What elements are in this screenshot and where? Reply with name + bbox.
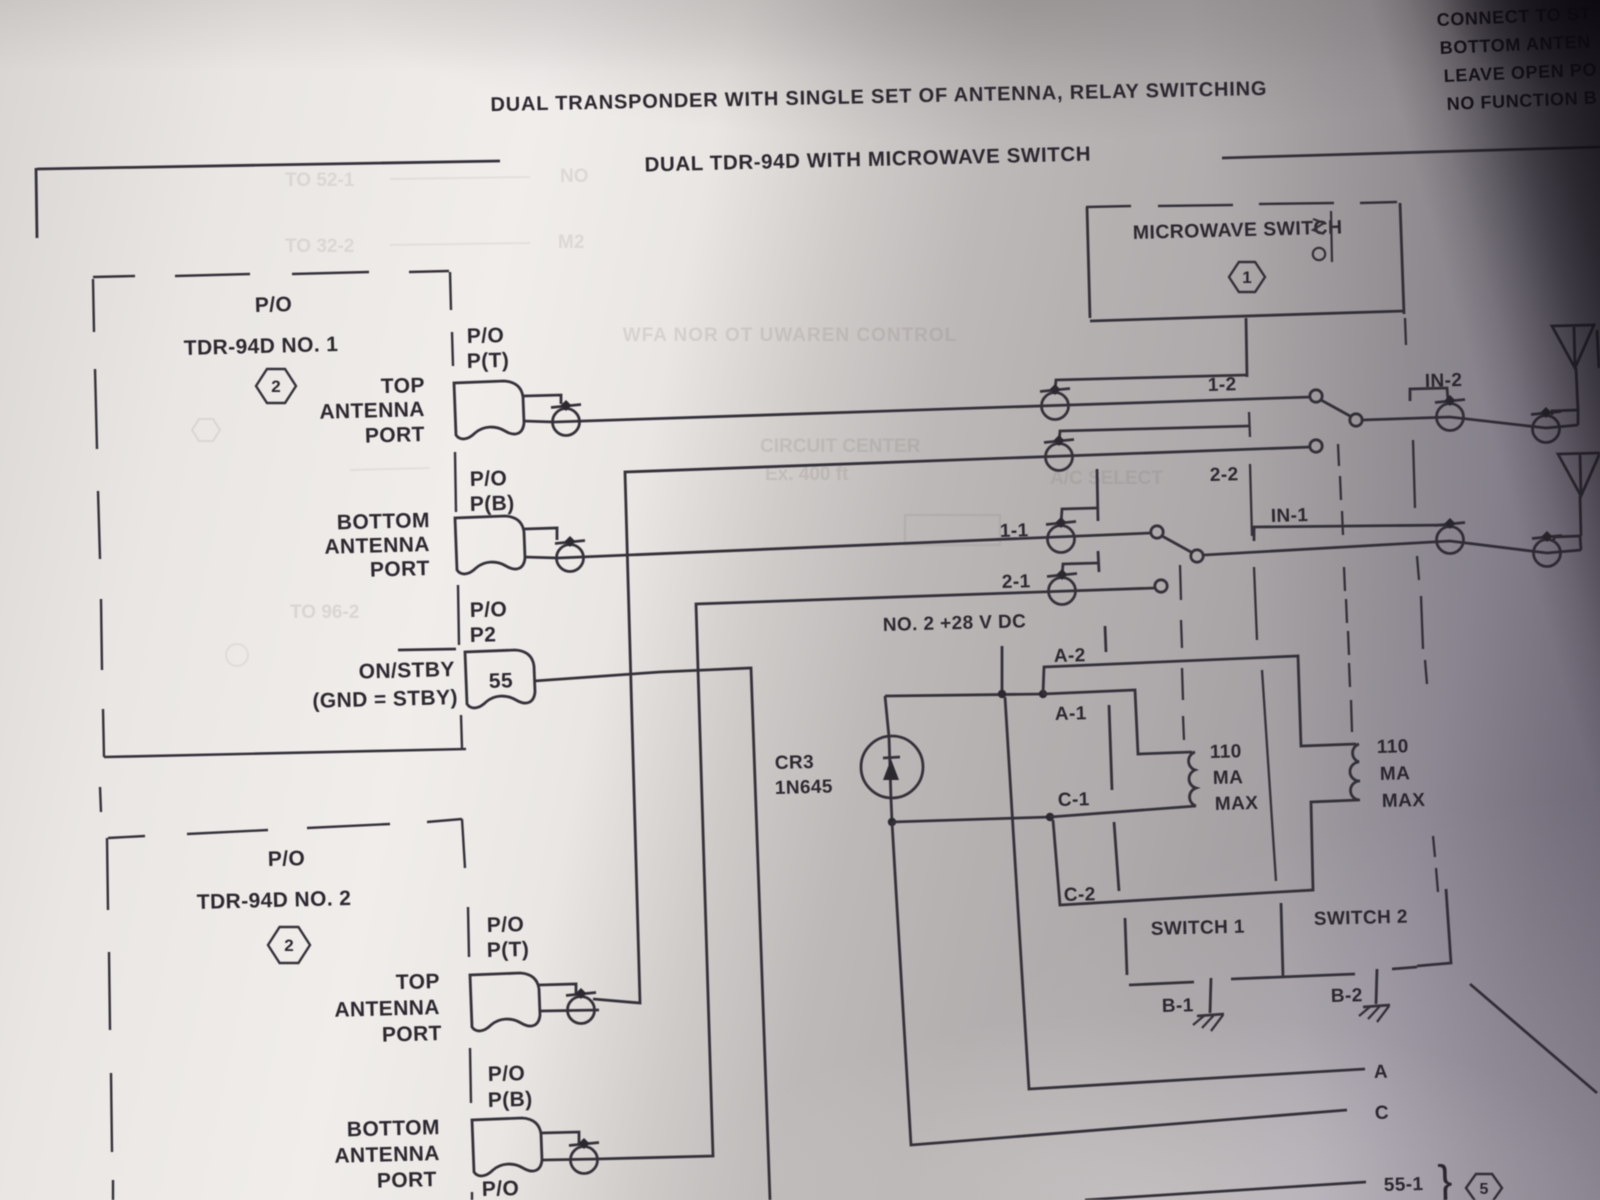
wire bottom antenna no.1 to relay [558,533,1151,558]
label BOTTOM [337,509,431,534]
label MA (coil2) [1380,763,1411,785]
svg-text:SWITCH 2: SWITCH 2 [1314,907,1409,930]
note line 4 [1446,87,1598,114]
svg-text:BOTTOM: BOTTOM [347,1116,441,1141]
wire top antenna no.2 riser [593,447,1311,1003]
svg-text:B-1: B-1 [1162,995,1194,1017]
ghost hexagon 2 [192,419,220,441]
dashed box TDR-94D NO.2 left edge [107,838,113,1200]
label 1-1 [1000,520,1029,542]
wire flag3 shield stub [539,984,576,994]
label 55 [489,669,514,693]
svg-text:P2: P2 [470,623,497,647]
wire terminal IN-2 bracket [1410,388,1448,401]
wire antenna1 mast [1576,368,1578,410]
wire C output [892,822,1347,1145]
bracket between switch labels [1281,903,1283,977]
svg-text:ANTENNA: ANTENNA [319,398,425,424]
svg-text:P/O: P/O [487,913,525,937]
svg-text:TDR-94D NO. 1: TDR-94D NO. 1 [184,333,339,360]
diagonal corner line [1470,984,1597,1093]
svg-text:C-1: C-1 [1058,789,1090,811]
wire flag4 center stub [543,1159,597,1160]
wire switch2 bottom border right [1392,967,1417,969]
svg-text:P/O: P/O [470,598,508,622]
svg-text:P/O: P/O [268,847,306,871]
connector antenna bottom feed [1532,531,1562,567]
label GND=STBY [312,686,458,713]
label B-1 [1162,995,1194,1017]
svg-text:5: 5 [1480,1181,1489,1198]
wire +28V bus [885,694,1043,696]
stub terminal B-1 [1210,978,1211,1013]
svg-text:A: A [1374,1062,1389,1083]
label P/O P(T) no.1 a [467,324,505,348]
dash between boxes [100,787,101,812]
label TOP [381,374,426,398]
svg-text:ANTENNA: ANTENNA [334,996,440,1022]
dashed boundary switch2 right [1405,318,1438,892]
connector flag P(T) no.2 [470,973,540,1031]
title text [490,78,1267,116]
wire flag3 center stub [541,1010,599,1011]
wire flag2 shield stub [524,528,557,540]
svg-text:2: 2 [284,936,293,955]
stub terminal 2-1 [1098,551,1099,572]
label C [1375,1103,1390,1124]
ghost circle 6 [226,644,248,666]
stub terminal C-2 [1114,822,1119,891]
label PORT 2 [370,557,431,582]
label TOP no.2 [396,970,441,994]
wire top-left bracket horizontal [37,161,500,169]
svg-text:PORT: PORT [382,1022,443,1047]
label MICROWAVE SWITCH [1133,217,1343,244]
svg-text:TO 32-2: TO 32-2 [285,236,354,257]
connector 2-2 [1044,435,1074,471]
label TDR-94D NO. 1 [184,333,339,360]
label P/O (cut) [482,1177,520,1200]
svg-text:55-1: 55-1 [1384,1174,1424,1196]
svg-text:1-2: 1-2 [1208,374,1237,396]
svg-text:(GND = STBY): (GND = STBY) [312,686,458,713]
wire flag4 shield stub [541,1132,579,1144]
coil L2 (110 MA MAX) [1350,744,1360,800]
wire diode anode drop [891,799,892,822]
label PORT [365,423,426,448]
connector antenna top feed [1531,407,1561,443]
svg-text:55: 55 [489,669,514,693]
svg-text:DUAL TDR-94D WITH MICROWAVE SW: DUAL TDR-94D WITH MICROWAVE SWITCH [644,143,1091,177]
label MAX (coil2) [1382,790,1426,812]
stub terminal A-2 [1105,626,1106,652]
ghost leader lines [350,177,530,470]
wire flag2 center stub [524,557,558,558]
label P/O P(T) no.1 b [467,349,510,373]
connector J3 top antenna no.2 [566,988,596,1024]
label 55-1 [1384,1174,1424,1196]
wire flag1 center stub [523,421,554,422]
label 110 (coil1) [1210,741,1242,763]
wire to diode cathode [885,696,889,737]
svg-text:ANTENNA: ANTENNA [334,1142,440,1168]
wire terminal IN-1 [1254,525,1451,541]
connector J2 bottom antenna no.1 [555,536,585,572]
svg-text:C: C [1375,1103,1390,1124]
wire flag1 shield stub [523,395,561,404]
svg-text:WFA NOR OT UWAREN CONTROL: WFA NOR OT UWAREN CONTROL [623,325,958,346]
wire terminal 1-2 [1055,375,1247,390]
svg-text:A/C SELECT: A/C SELECT [1050,468,1163,489]
label IN-1 [1271,505,1309,527]
dashed box microwave switch top edge [1086,202,1397,207]
wire terminal 2-2 [1059,426,1249,443]
svg-text:P(T): P(T) [487,938,530,962]
coil L1 (110 MA MAX) [1189,752,1196,806]
note line 2 [1439,31,1591,58]
switch blade S1 [1162,536,1191,552]
label A [1374,1062,1389,1083]
junction +28V [998,690,1006,698]
wire top-left bracket vertical [36,168,37,238]
label MA (coil1) [1213,767,1244,789]
svg-text:BOTTOM: BOTTOM [337,509,431,534]
svg-text:P/O: P/O [488,1062,526,1086]
junction C-1 [1046,813,1054,821]
contact circle 2-1 [1155,580,1167,592]
svg-text:1: 1 [1242,268,1251,287]
wire C-1 bus [892,817,1050,822]
contact circle 1-1 [1151,526,1163,538]
svg-text:PORT: PORT [365,423,426,448]
box microwave switch bottom edge [1090,311,1404,321]
svg-text:LEAVE OPEN PO: LEAVE OPEN PO [1443,59,1597,86]
svg-text:NO: NO [560,166,589,187]
svg-text:TOP: TOP [396,970,441,994]
label P/O no.2 [268,847,306,871]
svg-text:1N645: 1N645 [775,776,834,799]
svg-text:TO 52-1: TO 52-1 [285,170,355,191]
junction diode anode [888,818,896,826]
svg-text:110: 110 [1377,736,1409,758]
label P/O P(T) no.2 a [487,913,525,937]
dashed box TDR-94D NO.2 right edge [462,819,472,1200]
dashed boundary switch1 left [1180,565,1184,740]
switch blade S2 [1321,400,1350,416]
ghost text TO 52-1 [285,166,589,257]
svg-text:NO. 2 +28 V DC: NO. 2 +28 V DC [883,611,1027,636]
box microwave switch right edge [1400,203,1404,314]
label C-1 [1058,789,1090,811]
svg-text:ANTENNA: ANTENNA [324,533,430,559]
svg-text:M2: M2 [558,232,584,253]
label MAX (coil1) [1215,793,1259,815]
dashed box TDR-94D NO.2 top edge [108,819,462,838]
antenna symbol top [1552,325,1599,368]
label P/O no.1 [255,293,293,317]
ground B-1 [1193,1014,1224,1031]
stub terminal 1-1 [1097,469,1098,521]
label PORT no.2 b [377,1168,438,1193]
connector J1 top antenna no.1 [551,400,581,436]
svg-text:2-1: 2-1 [1002,571,1031,593]
svg-text:P(B): P(B) [470,492,515,516]
svg-text:DUAL TRANSPONDER WITH SINGLE S: DUAL TRANSPONDER WITH SINGLE SET OF ANTE… [490,78,1267,116]
connector flag 55 [465,650,535,708]
wire from switch box to 1-2 [1246,318,1247,377]
label ON/STBY [358,658,455,684]
hexagon 2 (tdr2) [268,927,310,963]
label B-2 [1331,985,1363,1007]
svg-text:A-2: A-2 [1054,645,1086,667]
overbar STBY [398,649,456,650]
bracket switch2 label right [1417,889,1451,966]
dashed box TDR-94D NO.1 right edge [450,272,462,748]
wire A-1 to coil1 [1043,690,1192,754]
wire terminal 1-1 [1061,508,1097,524]
label P/O P(B) no.2 b [488,1088,533,1112]
hexagon 1 (microwave switch) [1229,262,1265,292]
svg-text:2: 2 [271,377,280,396]
svg-text:1-1: 1-1 [1000,520,1029,542]
wire C-2 run [1053,800,1358,905]
svg-text:TO 96-2: TO 96-2 [290,602,359,623]
scribble mark on switch label [1313,211,1332,262]
hexagon 5 [1466,1174,1502,1200]
svg-text:110: 110 [1210,741,1242,763]
contact circle 2-2 [1310,440,1322,452]
connector flag P(T) no.1 [454,381,524,439]
svg-text:SWITCH 1: SWITCH 1 [1151,917,1246,940]
label P/O P2 b [470,623,497,647]
dashed boundary between switches [1249,412,1276,881]
box microwave switch left edge [1087,207,1090,318]
svg-text:P/O: P/O [467,324,505,348]
wire 55 to corner [534,668,770,1200]
wire switch bottom border mid [1231,974,1355,979]
svg-text:P/O: P/O [255,293,293,317]
connector flag P(B) no.2 [472,1118,542,1176]
wire top antenna no.1 to relay [554,397,1311,422]
svg-text:CONNECT TO ST: CONNECT TO ST [1436,3,1591,30]
label 2-2 [1210,464,1239,486]
svg-text:MAX: MAX [1215,793,1259,815]
svg-text:P(B): P(B) [488,1088,533,1112]
box TDR-94D NO.1 bottom edge [104,749,466,757]
label 1-2 [1208,374,1237,396]
svg-text:2-2: 2-2 [1210,464,1239,486]
svg-text:IN-1: IN-1 [1271,505,1309,527]
stub terminal A-1/C-1 [1109,705,1112,790]
label SWITCH 2 [1314,907,1409,930]
label CR3 [775,752,815,774]
svg-text:MAX: MAX [1382,790,1426,812]
bracket switch1 label left [1125,918,1127,975]
wire A-2 to coil2 [1043,656,1356,746]
label P/O P(B) no.1 b [470,492,515,516]
contact circle 1-2 [1310,390,1322,402]
wire A output [1005,697,1365,1089]
ghost text control row [623,325,958,346]
label NO.2 +28V DC [883,611,1027,636]
label 2-1 [1002,571,1031,593]
ground B-2 [1359,1005,1390,1022]
svg-text:MA: MA [1213,767,1244,789]
label A-2 [1054,645,1086,667]
connector IN-2 [1435,395,1465,431]
label P/O P2 a [470,598,508,622]
label PORT no.2 [382,1022,443,1047]
wire +28V drop [1001,646,1004,694]
wire top-right header line [1222,147,1600,158]
svg-text:TOP: TOP [381,374,426,398]
wire S2 pivot to IN-2 [1362,417,1578,428]
note line 1 [1436,3,1591,30]
label P/O P(T) no.2 b [487,938,530,962]
wire S1 pivot to IN-1 [1204,541,1581,555]
wire antenna1 stem [1552,410,1578,425]
stub terminal B-2 [1376,969,1377,1004]
label ANTENNA no.2 b [334,1142,440,1168]
connector flag P(B) no.1 [455,516,525,574]
label C-2 [1064,884,1096,906]
svg-text:PORT: PORT [377,1168,438,1193]
svg-text:CR3: CR3 [775,752,815,774]
label SWITCH 1 [1151,917,1246,940]
connector 2-1 [1047,569,1077,605]
connector 1-2 [1040,384,1070,420]
wire C-1 to coil1 bottom [1050,806,1196,817]
wire 55-1 output [1085,1182,1366,1200]
connector IN-1 [1435,518,1465,554]
junction A node [1039,690,1047,698]
svg-text:P/O: P/O [470,467,508,491]
ghost text circuit center [290,436,1163,623]
svg-text:A-1: A-1 [1055,703,1087,725]
dashed box TDR-94D NO.1 top edge [93,271,449,277]
svg-text:CIRCUIT CENTER: CIRCUIT CENTER [760,436,921,457]
subtitle text [644,143,1091,177]
label 110 (coil2) [1377,736,1409,758]
svg-text:P/O: P/O [482,1177,520,1200]
label IN-2 [1425,370,1463,392]
brace before hexagon 5 [1437,1157,1453,1200]
wire antenna2 stem [1554,536,1581,550]
label A-1 [1055,703,1087,725]
connector 1-1 [1046,517,1076,553]
svg-text:BOTTOM ANTEN: BOTTOM ANTEN [1439,31,1591,58]
wire antenna2 mast [1580,496,1581,536]
label ANTENNA [319,398,425,424]
label P/O P(B) no.1 a [470,467,508,491]
svg-text:ON/STBY: ON/STBY [358,658,455,684]
dashed box TDR-94D NO.1 left edge [93,279,104,757]
ghost box [905,515,1000,545]
note line 3 [1443,59,1597,86]
svg-text:MA: MA [1380,763,1411,785]
diode CR3 symbol [861,736,923,799]
pivot circle S2 [1350,414,1362,426]
dashed boundary switch2 left [1338,444,1352,732]
hexagon 2 (tdr1) [256,369,296,403]
label P/O P(B) no.2 a [488,1062,526,1086]
pivot circle S1 [1191,550,1203,562]
wire bottom antenna no.2 riser [597,588,1155,1159]
label 1N645 [775,776,834,799]
label BOTTOM no.2 [347,1116,441,1141]
label ANTENNA 2 [324,533,430,559]
label ANTENNA no.2 [334,996,440,1022]
antenna symbol bottom [1558,453,1600,496]
svg-text:P(T): P(T) [467,349,510,373]
wire terminal 2-1 [1062,563,1098,576]
connector J4 bottom antenna no.2 [569,1138,599,1174]
wire switch1 bottom border [1129,982,1194,985]
svg-text:PORT: PORT [370,557,431,582]
svg-text:NO FUNCTION B: NO FUNCTION B [1446,87,1598,114]
label TDR-94D NO. 2 [197,887,352,914]
svg-text:TDR-94D NO. 2: TDR-94D NO. 2 [197,887,352,914]
svg-text:B-2: B-2 [1331,985,1363,1007]
svg-text:}: } [1437,1157,1453,1200]
